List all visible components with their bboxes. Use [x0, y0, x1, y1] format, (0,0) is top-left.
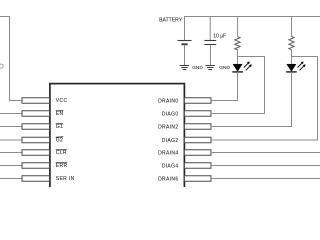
- pin box DRAIN0: [184, 98, 211, 104]
- wire capacitor to ground: [210, 45, 212, 66]
- wire DIAG2 sense branch: [211, 57, 318, 141]
- wire DIAG0 sense branch: [211, 57, 265, 114]
- pin box DRAIN2: [184, 124, 211, 130]
- svg-text:VCC: VCC: [56, 98, 68, 104]
- svg-text:G2: G2: [56, 138, 63, 144]
- pin box DRAIN4: [184, 150, 211, 156]
- wire R2 to LED D2: [291, 50, 293, 64]
- pin box DIAG2: [184, 137, 211, 143]
- svg-text:EN: EN: [56, 111, 64, 117]
- pin box CLR: [22, 150, 50, 156]
- wire VCC input from left edge: [0, 17, 22, 101]
- ground (capacitor): [206, 66, 215, 70]
- svg-text:DRAIN0: DRAIN0: [158, 98, 178, 104]
- LED D2: [286, 62, 306, 72]
- wire CLR input: [0, 152, 22, 154]
- svg-text:10 µF: 10 µF: [213, 34, 226, 40]
- pin box DRAIN6: [184, 176, 211, 182]
- svg-text:BATTERY: BATTERY: [159, 17, 183, 23]
- svg-text:G1: G1: [56, 124, 63, 130]
- wire rail tap to capacitor: [209, 17, 211, 41]
- ground (battery): [180, 66, 189, 70]
- wire DIAG4 to right edge: [211, 165, 320, 167]
- pin box G2: [22, 137, 50, 143]
- svg-text:DRAIN2: DRAIN2: [158, 124, 178, 130]
- svg-text:ERR: ERR: [56, 163, 68, 169]
- svg-text:GND: GND: [192, 65, 203, 71]
- svg-text:DRAIN4: DRAIN4: [158, 150, 178, 156]
- LED D1: [232, 62, 252, 72]
- capacitor C1: [204, 41, 216, 45]
- svg-text:SER IN: SER IN: [56, 176, 75, 182]
- pin box VCC: [22, 98, 50, 104]
- svg-text:DIAG2: DIAG2: [162, 138, 179, 144]
- wire EN input: [0, 113, 22, 115]
- svg-text:DIAG0: DIAG0: [162, 111, 179, 117]
- pin box DIAG4: [184, 163, 211, 169]
- battery BT1: [178, 41, 192, 45]
- resistor R2: [289, 37, 294, 50]
- wire LED D1 cathode to DRAIN0: [211, 72, 238, 101]
- wire rail tap to R1: [237, 17, 239, 37]
- wire battery riser + top rail + drop to R2: [185, 17, 320, 41]
- wire R1 to LED D1: [237, 50, 239, 64]
- node connector circle (left edge): [0, 64, 3, 68]
- pin box EN: [22, 111, 50, 117]
- wire SER IN input: [0, 178, 22, 180]
- pin box G1: [22, 124, 50, 130]
- svg-text:DIAG4: DIAG4: [162, 163, 179, 169]
- wire G2 input: [0, 139, 22, 141]
- wire ERR input: [0, 165, 22, 167]
- wire rail tap to R2: [291, 17, 293, 37]
- pin box ERR: [22, 163, 50, 169]
- pin box DIAG0: [184, 111, 211, 117]
- wire battery to ground: [184, 45, 186, 65]
- wire G1 input: [0, 126, 22, 128]
- svg-text:DRAIN6: DRAIN6: [158, 176, 178, 182]
- resistor R1: [235, 37, 240, 50]
- wire LED D2 cathode to DRAIN2: [211, 72, 292, 127]
- op-amp U1 IC body: [50, 84, 185, 204]
- pin box SER IN: [22, 176, 50, 182]
- wire DRAIN4 to right edge: [211, 152, 320, 154]
- wire DRAIN6 to right edge: [211, 178, 320, 180]
- svg-text:GND: GND: [219, 65, 230, 71]
- svg-text:CLR: CLR: [56, 150, 67, 156]
